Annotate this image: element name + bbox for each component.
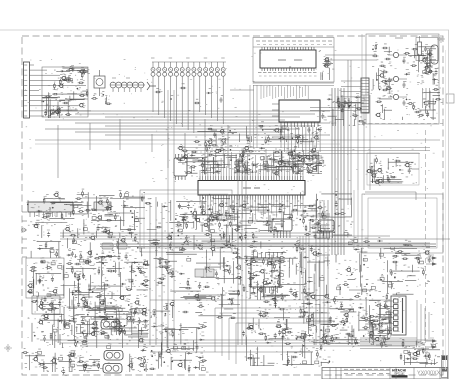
svg-text:CMT2187: CMT2187 (394, 373, 405, 376)
svg-text:YX000XX: YX000XX (417, 371, 441, 377)
